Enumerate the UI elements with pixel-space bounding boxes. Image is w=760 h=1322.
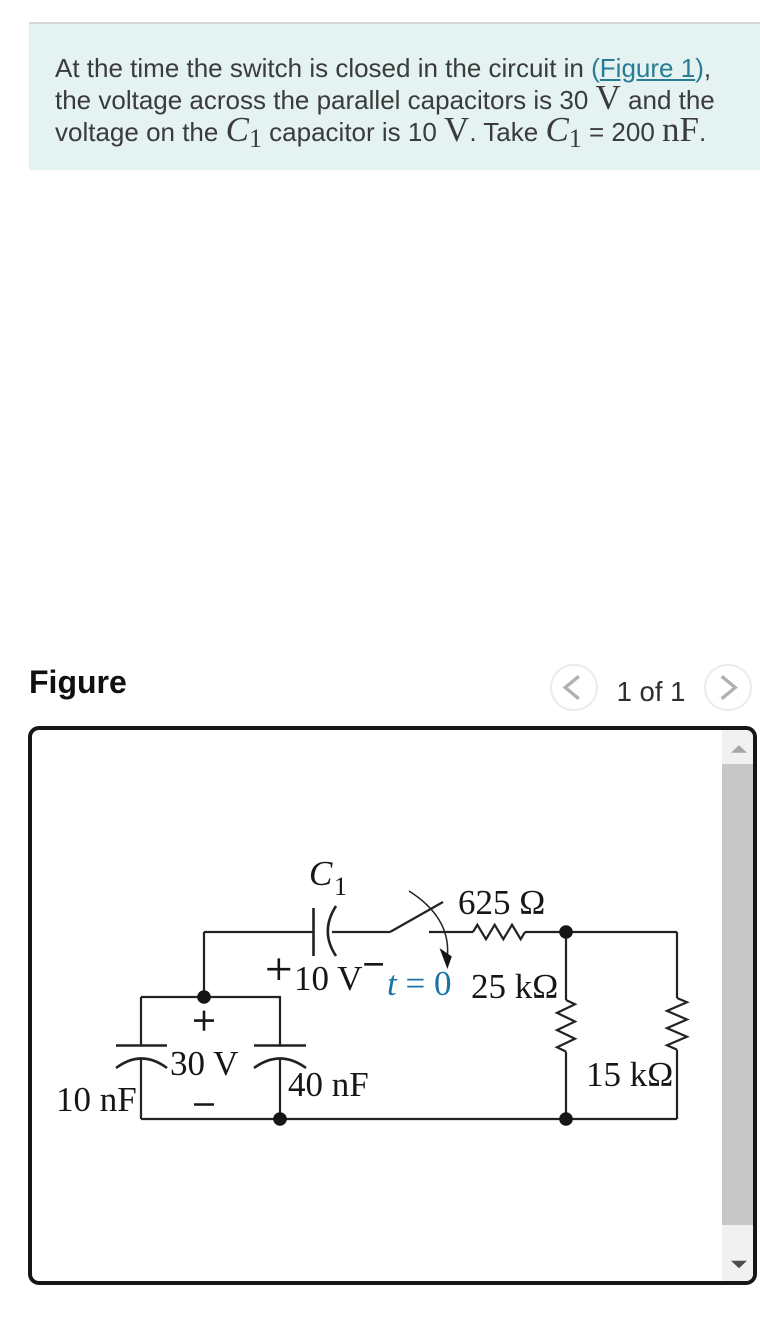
svg-text:15 kΩ: 15 kΩ (586, 1055, 673, 1094)
svg-text:40 nF: 40 nF (288, 1065, 369, 1104)
svg-text:25 kΩ: 25 kΩ (471, 967, 558, 1006)
svg-text:10 nF: 10 nF (56, 1080, 137, 1119)
svg-text:625 Ω: 625 Ω (458, 883, 545, 922)
svg-text:10 V: 10 V (294, 959, 362, 998)
svg-text:30 V: 30 V (170, 1044, 238, 1083)
svg-text:1: 1 (334, 872, 347, 901)
svg-text:t = 0: t = 0 (387, 964, 451, 1003)
svg-text:C: C (309, 854, 333, 893)
